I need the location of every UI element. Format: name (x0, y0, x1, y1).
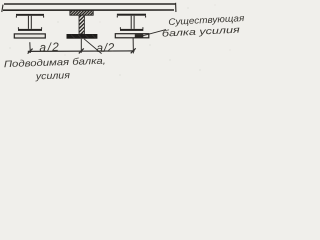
right beam top flange (117, 14, 146, 18)
leader to right text (143, 30, 166, 36)
extension line right beam (132, 38, 134, 54)
slab right end tick (175, 3, 177, 12)
new beam bottom plate (67, 34, 98, 39)
slab bottom line (3, 9, 174, 11)
new beam web (hatched) (79, 15, 84, 34)
right beam bottom flange (120, 27, 143, 31)
right beam web (131, 16, 134, 29)
left beam bottom flange (18, 27, 42, 31)
svg-text:а/2: а/2 (39, 40, 59, 55)
scan speckles (10, 5, 231, 76)
left beam top flange (16, 14, 44, 18)
new beam top flange (hatched) (70, 11, 93, 16)
svg-text:а/2: а/2 (96, 40, 115, 55)
leader from bottom caption to new beam (84, 39, 102, 54)
svg-text:усилия: усилия (35, 70, 70, 82)
left beam web (28, 16, 31, 29)
slab top line (4, 3, 176, 5)
dim tick left (28, 49, 33, 54)
dim tick middle (79, 48, 84, 53)
extension line new beam (80, 39, 82, 53)
extension line left beam (29, 42, 32, 53)
right beam bottom plate (115, 34, 149, 38)
slab left end tick (2, 5, 3, 12)
dim tick right (131, 48, 136, 53)
left beam bottom plate (14, 34, 45, 38)
dimension line (28, 50, 135, 53)
